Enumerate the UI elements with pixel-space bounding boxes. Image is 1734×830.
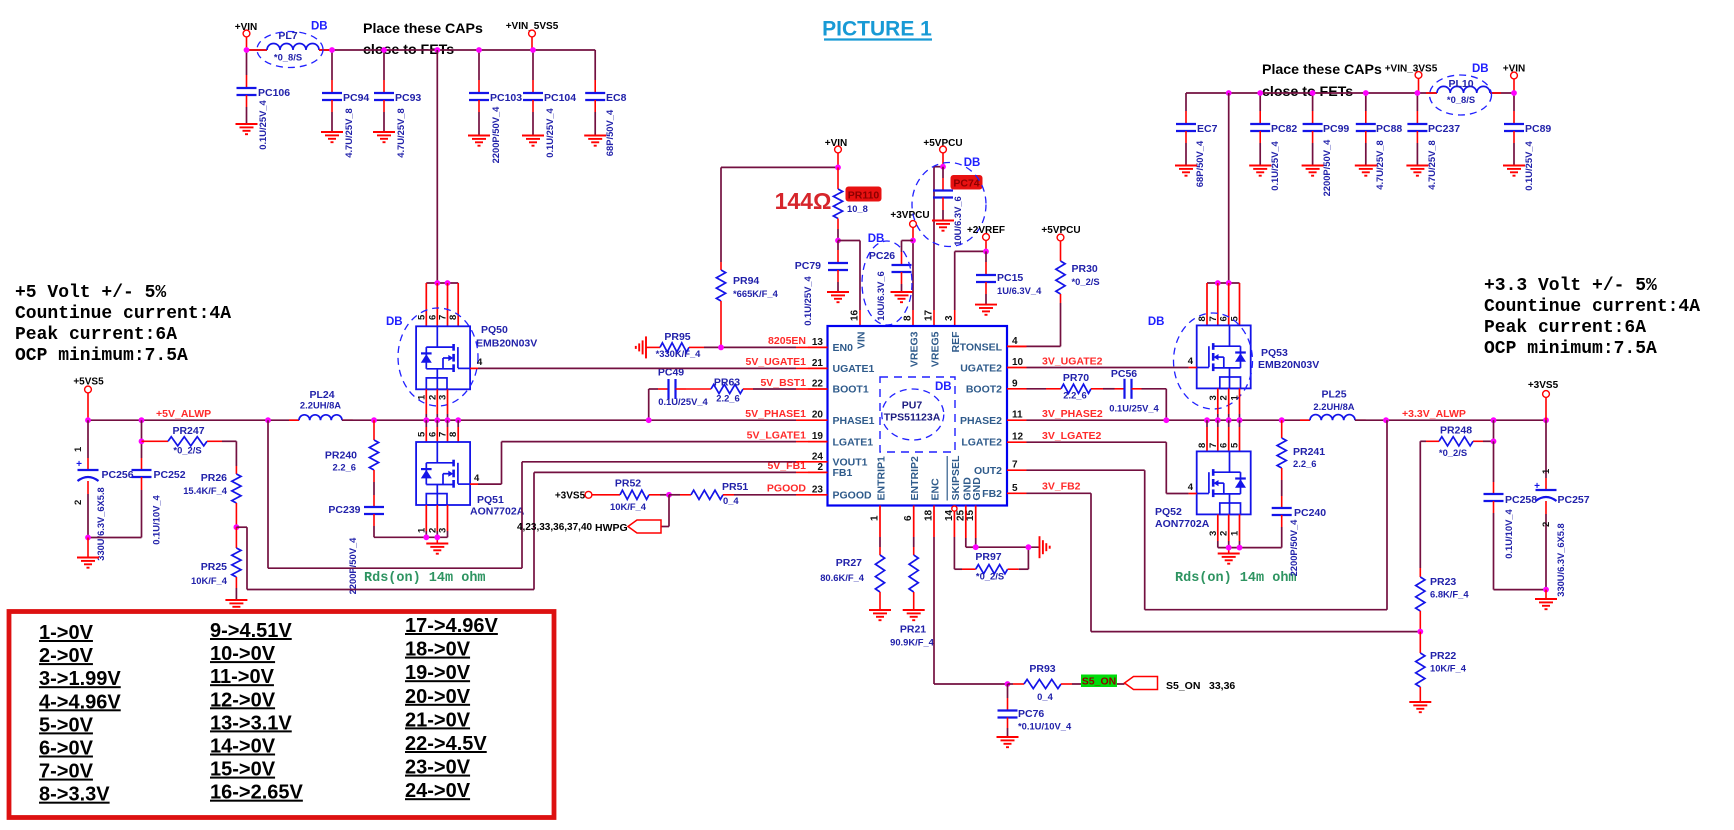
title PICTURE 1 bbox=[822, 18, 932, 41]
power terminal +5VS5 bbox=[73, 377, 104, 421]
junctions +5V_ALWP / phase rail bbox=[85, 417, 652, 423]
svg-text:11->0V: 11->0V bbox=[210, 666, 275, 688]
svg-text:BOOT1: BOOT1 bbox=[833, 384, 869, 396]
svg-text:19->0V: 19->0V bbox=[405, 662, 471, 684]
svg-text:PR110: PR110 bbox=[848, 189, 880, 201]
svg-text:4.7U/25V_8: 4.7U/25V_8 bbox=[343, 108, 354, 158]
svg-text:PL10: PL10 bbox=[1448, 78, 1473, 90]
junctions on +VIN bus (top-left) bbox=[244, 47, 536, 53]
svg-text:2.2_6: 2.2_6 bbox=[333, 462, 356, 473]
capacitor PC240 bbox=[1272, 496, 1327, 576]
DB marker PQ50 bbox=[386, 308, 478, 406]
svg-text:S5_ON: S5_ON bbox=[1166, 680, 1200, 692]
svg-text:20: 20 bbox=[812, 410, 824, 421]
svg-text:3: 3 bbox=[1208, 531, 1219, 536]
transistor PQ51 top pins 5,6,7,8 bbox=[416, 420, 459, 442]
pin 8 VREG3 (PU7 top) bbox=[903, 315, 921, 367]
resistor PR30 bbox=[1056, 248, 1100, 303]
resistor PR22 bbox=[1416, 632, 1467, 702]
svg-text:PL25: PL25 bbox=[1321, 389, 1346, 401]
ground (PC237) bbox=[1406, 166, 1428, 176]
svg-text:LGATE1: LGATE1 bbox=[833, 437, 874, 449]
svg-text:PHASE2: PHASE2 bbox=[960, 415, 1002, 427]
svg-text:2: 2 bbox=[1219, 395, 1230, 400]
svg-text:2->0V: 2->0V bbox=[39, 645, 94, 667]
svg-text:2: 2 bbox=[817, 462, 823, 473]
ground (PC103) bbox=[468, 136, 490, 146]
svg-text:PR51: PR51 bbox=[722, 481, 748, 493]
svg-text:1: 1 bbox=[416, 527, 427, 533]
svg-text:FB2: FB2 bbox=[982, 488, 1002, 500]
svg-text:8: 8 bbox=[1197, 443, 1208, 448]
svg-text:S5_ON: S5_ON bbox=[1082, 676, 1116, 688]
pin 13 EN0 (PU7 left) bbox=[808, 337, 853, 354]
wire OUT2 sense bbox=[1027, 420, 1388, 610]
capacitor EC8 bbox=[585, 50, 626, 156]
power terminal +5VPCU (TONSEL) bbox=[1041, 225, 1080, 248]
wire FB1 sense bbox=[236, 472, 808, 589]
pin 7 OUT2 (PU7 right) bbox=[974, 460, 1027, 477]
junction FB1 divider bbox=[234, 524, 240, 530]
transistor PQ51 bottom pins 1,2,3 bbox=[416, 505, 448, 537]
svg-text:1: 1 bbox=[1230, 395, 1241, 401]
voltage table red frame bbox=[9, 612, 554, 818]
svg-text:144Ω: 144Ω bbox=[775, 188, 832, 214]
note: +5 Volt spec block bbox=[15, 283, 231, 366]
svg-text:24: 24 bbox=[812, 451, 824, 462]
inductor PL24 bbox=[289, 389, 353, 420]
svg-text:BOOT2: BOOT2 bbox=[966, 384, 1002, 396]
svg-text:3: 3 bbox=[944, 315, 955, 321]
svg-text:*330K/F_4: *330K/F_4 bbox=[656, 348, 702, 359]
svg-text:0.1U/25V_4: 0.1U/25V_4 bbox=[802, 275, 813, 325]
svg-text:10: 10 bbox=[1012, 357, 1024, 368]
svg-text:PR25: PR25 bbox=[201, 561, 227, 573]
svg-text:EC8: EC8 bbox=[606, 92, 627, 104]
net 3V_UGATE2 bbox=[1042, 356, 1103, 368]
svg-text:0.1U/25V_4: 0.1U/25V_4 bbox=[658, 396, 708, 407]
pin 4 TONSEL (PU7 right) bbox=[960, 336, 1027, 354]
svg-text:5: 5 bbox=[416, 431, 427, 437]
junction EN0/PR94 bbox=[718, 345, 724, 351]
inductor PL7 bbox=[249, 30, 331, 63]
net PGOOD bbox=[767, 483, 807, 495]
svg-text:HWPG: HWPG bbox=[595, 522, 628, 534]
transistor PQ50 bottom pins 1,2,3 bbox=[416, 389, 448, 420]
ground (PC106) bbox=[236, 124, 258, 134]
power terminal +3VS5 (PGOOD pullup) bbox=[555, 491, 600, 502]
resistor PR247 bbox=[142, 425, 237, 456]
svg-text:10K/F_4: 10K/F_4 bbox=[191, 575, 228, 586]
resistor PR93 bbox=[1008, 663, 1125, 702]
resistor PR94 bbox=[716, 262, 778, 347]
power terminal +2VREF bbox=[967, 225, 1005, 251]
svg-text:PC106: PC106 bbox=[258, 87, 290, 99]
power terminal +VIN (top-right) bbox=[1503, 64, 1526, 94]
resistor PR241 bbox=[1277, 420, 1325, 496]
svg-text:3V_UGATE2: 3V_UGATE2 bbox=[1042, 356, 1103, 368]
svg-text:PC258: PC258 bbox=[1505, 494, 1537, 506]
svg-text:PC89: PC89 bbox=[1525, 123, 1551, 135]
svg-text:10_8: 10_8 bbox=[847, 203, 868, 214]
ground (EC8) bbox=[584, 136, 606, 146]
svg-text:*0.1U/10V_4: *0.1U/10V_4 bbox=[1018, 721, 1072, 732]
junction +2VREF node bbox=[983, 249, 989, 255]
wire +VIN bus (top-left) bbox=[247, 49, 596, 51]
capacitor PC258 bbox=[1484, 441, 1547, 589]
svg-text:PC15: PC15 bbox=[997, 272, 1023, 284]
ground (PC89) bbox=[1503, 166, 1525, 176]
svg-text:VIN: VIN bbox=[856, 332, 868, 350]
ground (PC256) bbox=[77, 538, 99, 568]
capacitor PC26 bbox=[869, 241, 913, 321]
resistor PR97 bbox=[962, 547, 1028, 581]
svg-text:*0_2/S: *0_2/S bbox=[1072, 276, 1100, 287]
note Rds(on) right bbox=[1175, 571, 1297, 586]
svg-text:TPS51123A: TPS51123A bbox=[884, 412, 941, 424]
ground (PC15) bbox=[975, 305, 997, 315]
svg-text:SKIPSEL: SKIPSEL bbox=[950, 455, 962, 501]
transistor PQ52 top pins 8,7,6,5 bbox=[1197, 420, 1241, 451]
svg-text:5: 5 bbox=[416, 314, 427, 320]
svg-text:3: 3 bbox=[1208, 395, 1219, 400]
svg-text:330U/6.3V_6X5.8: 330U/6.3V_6X5.8 bbox=[96, 487, 106, 560]
capacitor PC93 bbox=[374, 50, 421, 158]
junction PR248 right bbox=[1491, 438, 1497, 444]
capacitor PC76 bbox=[998, 684, 1072, 737]
svg-text:PC240: PC240 bbox=[1294, 507, 1326, 519]
svg-text:PR240: PR240 bbox=[325, 450, 357, 462]
svg-text:2.2_6: 2.2_6 bbox=[1293, 458, 1316, 469]
value 144-ohm callout bbox=[775, 188, 832, 214]
junctions on +VIN bus (top-right) bbox=[1226, 90, 1517, 96]
svg-text:0.1U/25V_4: 0.1U/25V_4 bbox=[1109, 403, 1159, 414]
svg-text:8: 8 bbox=[448, 315, 459, 320]
svg-text:*0_2/S: *0_2/S bbox=[976, 571, 1004, 582]
pin 23 PGOOD (PU7 left) bbox=[808, 484, 872, 501]
svg-text:DB: DB bbox=[964, 157, 981, 169]
note: Place these CAPs close to FETs (right) bbox=[1262, 62, 1382, 100]
svg-text:2200P/50V_4: 2200P/50V_4 bbox=[490, 106, 501, 164]
svg-text:7: 7 bbox=[1208, 316, 1219, 321]
note: Place these CAPs close to FETs (left) bbox=[363, 21, 483, 58]
ground (PC99) bbox=[1302, 166, 1324, 176]
resistor PR63 bbox=[686, 377, 808, 404]
svg-text:15.4K/F_4: 15.4K/F_4 bbox=[183, 485, 228, 496]
svg-text:DB: DB bbox=[1472, 63, 1489, 75]
svg-text:OCP minimum:7.5A: OCP minimum:7.5A bbox=[1484, 339, 1657, 359]
svg-text:4: 4 bbox=[474, 473, 480, 484]
svg-text:2200P/50V_4: 2200P/50V_4 bbox=[1288, 519, 1299, 577]
voltage table column 2 bbox=[210, 620, 304, 804]
power terminal +VIN_3VS5 bbox=[1385, 64, 1438, 94]
svg-text:PR21: PR21 bbox=[900, 624, 926, 636]
svg-text:2.2UH/8A: 2.2UH/8A bbox=[1313, 401, 1354, 412]
svg-text:PQ51: PQ51 bbox=[477, 494, 504, 506]
junctions +3.3V_ALWP rail bbox=[1383, 417, 1549, 423]
svg-text:PR241: PR241 bbox=[1293, 446, 1325, 458]
capacitor PC99 bbox=[1303, 93, 1350, 196]
svg-text:18: 18 bbox=[924, 509, 935, 521]
svg-text:4->4.96V: 4->4.96V bbox=[39, 691, 121, 713]
wire 3V phase node bbox=[1027, 419, 1311, 421]
power terminal +VIN (center) bbox=[825, 138, 848, 167]
net 3V_FB2 bbox=[1042, 481, 1081, 493]
wire 5V phase node bbox=[342, 419, 808, 421]
svg-text:AON7702A: AON7702A bbox=[470, 506, 525, 518]
DB marker PQ53 bbox=[1148, 313, 1253, 409]
capacitor PC256 (bulk) bbox=[73, 420, 134, 561]
capacitor PC15 bbox=[976, 251, 1042, 304]
ground (PC93) bbox=[373, 132, 395, 142]
ground (PR21) bbox=[903, 610, 925, 620]
capacitor PC82 bbox=[1250, 93, 1297, 191]
svg-text:FB1: FB1 bbox=[833, 467, 853, 479]
transistor PQ52 bottom pins 3,2,1 bbox=[1208, 514, 1241, 547]
wire HWPG stub bbox=[661, 495, 669, 527]
svg-text:15->0V: 15->0V bbox=[210, 759, 276, 781]
transistor Q1 PQ50 (EMB20N03V) bbox=[416, 324, 537, 389]
svg-text:19: 19 bbox=[812, 431, 824, 442]
svg-text:5V_UGATE1: 5V_UGATE1 bbox=[746, 356, 807, 368]
ground (PR25) bbox=[225, 600, 247, 610]
svg-text:+3.3V_ALWP: +3.3V_ALWP bbox=[1402, 408, 1466, 420]
ground (PR22) bbox=[1409, 702, 1431, 712]
svg-text:11: 11 bbox=[1012, 410, 1023, 421]
svg-text:68P/50V_4: 68P/50V_4 bbox=[604, 109, 615, 156]
svg-text:OUT2: OUT2 bbox=[974, 465, 1002, 477]
resistor PR70 bbox=[1027, 372, 1115, 401]
svg-text:90.9K/F_4: 90.9K/F_4 bbox=[890, 637, 935, 648]
svg-text:1: 1 bbox=[1230, 530, 1241, 536]
net 3V_PHASE2 bbox=[1042, 408, 1103, 420]
svg-text:PR97: PR97 bbox=[975, 551, 1001, 563]
wire +VIN node to PR94 bbox=[721, 167, 838, 262]
capacitor PC94 bbox=[322, 50, 369, 158]
svg-text:PHASE1: PHASE1 bbox=[833, 415, 875, 427]
wire TONSEL net bbox=[1007, 303, 1061, 346]
net flag S5_ON (green) bbox=[1081, 675, 1117, 688]
pin 9 BOOT2 (PU7 right) bbox=[966, 378, 1027, 395]
ground (PR27) bbox=[869, 610, 891, 620]
svg-text:3->1.99V: 3->1.99V bbox=[39, 668, 121, 690]
junction PGOOD/HWPG bbox=[666, 492, 672, 498]
capacitor PC79 bbox=[795, 241, 848, 326]
capacitor PC49 bbox=[649, 367, 709, 421]
svg-text:3: 3 bbox=[438, 528, 449, 533]
svg-text:12->0V: 12->0V bbox=[210, 689, 276, 711]
pin 24 VOUT1 (PU7 left) bbox=[808, 451, 868, 468]
off-page connector S5_ON bbox=[1125, 677, 1236, 693]
svg-text:PC237: PC237 bbox=[1428, 123, 1460, 135]
junctions GND net bbox=[973, 544, 1032, 550]
junctions PQ50 mini-bus bbox=[434, 280, 450, 286]
wire VIN feed to PQ50 bbox=[436, 50, 438, 283]
resistor PR52 bbox=[600, 478, 669, 513]
off-page connector HWPG bbox=[517, 520, 661, 534]
ground (PQ52 source) bbox=[1218, 554, 1240, 564]
svg-text:23: 23 bbox=[812, 484, 824, 495]
pin 14 SKIPSEL bubble and wire bbox=[952, 506, 962, 569]
svg-text:10U/6.3V_6: 10U/6.3V_6 bbox=[875, 271, 886, 321]
svg-text:PR63: PR63 bbox=[714, 377, 740, 389]
power terminal +VIN_5VS5 bbox=[506, 21, 559, 50]
wire +3.3V_ALWP rail bbox=[1355, 419, 1546, 421]
svg-text:*0_2/S: *0_2/S bbox=[173, 445, 201, 456]
svg-text:PC74: PC74 bbox=[953, 177, 979, 189]
wire PQ53 drain mini-bus bbox=[1207, 282, 1240, 284]
pin 15 GND (PU7 bottom) bbox=[965, 477, 983, 521]
pin 2 FB1 (PU7 left) bbox=[808, 462, 852, 479]
wire PQ52 source to ground bbox=[1218, 548, 1282, 554]
svg-text:UGATE1: UGATE1 bbox=[833, 363, 875, 375]
junction PC256 bottom bbox=[85, 535, 91, 541]
svg-text:7: 7 bbox=[438, 432, 449, 437]
svg-text:3V_FB2: 3V_FB2 bbox=[1042, 481, 1081, 493]
net 5V_UGATE1 bbox=[746, 356, 807, 368]
svg-text:VREG5: VREG5 bbox=[930, 331, 942, 367]
svg-text:4: 4 bbox=[1012, 336, 1018, 347]
svg-text:OCP minimum:7.5A: OCP minimum:7.5A bbox=[15, 346, 188, 366]
svg-text:Countinue current:4A: Countinue current:4A bbox=[15, 304, 231, 324]
junctions PQ52 source bbox=[1226, 545, 1243, 551]
svg-text:PC93: PC93 bbox=[395, 92, 421, 104]
svg-text:*0_8/S: *0_8/S bbox=[274, 52, 302, 63]
svg-text:PC56: PC56 bbox=[1111, 368, 1137, 380]
svg-text:EMB20N03V: EMB20N03V bbox=[1258, 359, 1319, 371]
capacitor PC239 bbox=[328, 495, 384, 594]
ground (PC26) bbox=[891, 292, 913, 302]
svg-text:5: 5 bbox=[1230, 442, 1241, 448]
svg-text:8: 8 bbox=[448, 432, 459, 437]
svg-text:13->3.1V: 13->3.1V bbox=[210, 712, 292, 734]
svg-text:5V_PHASE1: 5V_PHASE1 bbox=[745, 408, 806, 420]
svg-text:PR27: PR27 bbox=[836, 557, 862, 569]
svg-text:2: 2 bbox=[73, 500, 84, 505]
resistor PR25 bbox=[191, 527, 241, 600]
svg-text:80.6K/F_4: 80.6K/F_4 bbox=[820, 572, 865, 583]
wire VREG3 pin8 feed bbox=[912, 241, 914, 327]
junctions PQ53 mini-bus bbox=[1215, 280, 1232, 286]
wire UGATE1 (PQ50 gate) bbox=[470, 357, 808, 368]
svg-text:PQ53: PQ53 bbox=[1261, 347, 1288, 359]
svg-text:PC79: PC79 bbox=[795, 260, 821, 272]
svg-text:TONSEL: TONSEL bbox=[960, 342, 1003, 354]
power terminal +3VS5 bbox=[1528, 380, 1559, 420]
pin 3 REF (PU7 top) bbox=[944, 315, 962, 353]
wire +5V_ALWP rail bbox=[88, 419, 299, 421]
ground (PC82) bbox=[1249, 166, 1271, 176]
capacitor PC237 bbox=[1407, 93, 1460, 190]
svg-text:PC99: PC99 bbox=[1323, 123, 1349, 135]
svg-text:2.2UH/8A: 2.2UH/8A bbox=[300, 400, 341, 411]
svg-text:PR30: PR30 bbox=[1072, 263, 1098, 275]
svg-text:ENTRIP1: ENTRIP1 bbox=[876, 456, 888, 501]
transistor Q4 PQ52 (AON7702A) bbox=[1155, 451, 1251, 530]
svg-text:+VIN_3VS5: +VIN_3VS5 bbox=[1385, 64, 1438, 75]
svg-text:5: 5 bbox=[1012, 483, 1018, 494]
svg-text:1: 1 bbox=[870, 515, 881, 521]
ground (PC94) bbox=[321, 132, 343, 142]
capacitor PC56 bbox=[1109, 368, 1166, 420]
svg-text:3V_LGATE2: 3V_LGATE2 bbox=[1042, 430, 1101, 442]
wire UGATE2 (PQ53 gate) bbox=[1027, 356, 1197, 368]
svg-text:EMB20N03V: EMB20N03V bbox=[476, 338, 537, 350]
svg-text:8205EN: 8205EN bbox=[768, 335, 806, 347]
svg-text:8: 8 bbox=[903, 315, 914, 321]
svg-text:AON7702A: AON7702A bbox=[1155, 518, 1210, 530]
inductor PL25 bbox=[1300, 389, 1366, 421]
svg-text:7: 7 bbox=[438, 315, 449, 320]
svg-text:2200P/50V_4: 2200P/50V_4 bbox=[1321, 139, 1332, 197]
transistor Q2 PQ51 (AON7702A) bbox=[416, 442, 525, 518]
svg-text:DB: DB bbox=[386, 316, 403, 328]
wire GND pins 25/15 bbox=[966, 506, 1040, 548]
svg-text:2200P/50V_4: 2200P/50V_4 bbox=[347, 537, 358, 595]
DB marker PL7 bbox=[257, 21, 328, 68]
svg-text:+3VS5: +3VS5 bbox=[555, 491, 586, 502]
svg-text:Peak current:6A: Peak current:6A bbox=[1484, 318, 1646, 338]
pin 17 VREG5 (PU7 top) bbox=[924, 309, 942, 367]
wire LGATE2 (PQ52 gate) bbox=[1027, 442, 1197, 493]
svg-text:22: 22 bbox=[812, 379, 824, 390]
pin 25 GND (PU7 bottom) bbox=[955, 477, 973, 521]
svg-text:24->0V: 24->0V bbox=[405, 780, 471, 802]
svg-text:330U/6.3V_6X5.8: 330U/6.3V_6X5.8 bbox=[1556, 523, 1566, 596]
transistor Q3 PQ53 (EMB20N03V) bbox=[1197, 325, 1320, 388]
wire PQ50 drain mini-bus bbox=[426, 282, 458, 284]
svg-text:1: 1 bbox=[1541, 468, 1552, 474]
svg-text:21->0V: 21->0V bbox=[405, 709, 471, 731]
svg-text:close to FETs: close to FETs bbox=[1262, 84, 1353, 100]
svg-text:13: 13 bbox=[812, 337, 824, 348]
svg-text:1->0V: 1->0V bbox=[39, 622, 94, 644]
wire VOUT1 sense bbox=[268, 420, 808, 568]
net 5V_LGATE1 bbox=[747, 430, 806, 442]
svg-text:+3VPCU: +3VPCU bbox=[890, 210, 929, 221]
svg-text:+3.3 Volt +/- 5%: +3.3 Volt +/- 5% bbox=[1484, 276, 1657, 296]
capacitor PC106 bbox=[237, 50, 291, 150]
DB marker PC26 bbox=[862, 233, 912, 325]
svg-text:22->4.5V: 22->4.5V bbox=[405, 733, 487, 755]
junction +3VPCU node bbox=[910, 238, 916, 244]
svg-text:PC256: PC256 bbox=[102, 469, 134, 481]
svg-text:Place these CAPs: Place these CAPs bbox=[363, 21, 483, 37]
svg-text:0.1U/25V_4: 0.1U/25V_4 bbox=[257, 99, 268, 149]
capacitor PC89 bbox=[1504, 93, 1551, 191]
svg-text:Rds(on) 14m ohm: Rds(on) 14m ohm bbox=[1175, 571, 1297, 586]
ground (PC88) bbox=[1355, 166, 1377, 176]
pin 6 ENTRIP2 (PU7 bottom) bbox=[903, 456, 921, 521]
svg-text:0.1U/10V_4: 0.1U/10V_4 bbox=[151, 494, 162, 544]
resistor PR26 bbox=[183, 441, 241, 527]
svg-text:33,36: 33,36 bbox=[1209, 680, 1235, 692]
svg-text:PR95: PR95 bbox=[664, 331, 690, 343]
svg-text:PR26: PR26 bbox=[201, 472, 227, 484]
svg-text:1: 1 bbox=[416, 394, 427, 400]
svg-text:+5V_ALWP: +5V_ALWP bbox=[156, 408, 211, 420]
wire VIN pin16 feed bbox=[838, 241, 860, 327]
wire EN0 to pin 13 bbox=[704, 346, 808, 348]
svg-text:7: 7 bbox=[1208, 443, 1219, 448]
net 8205EN bbox=[768, 335, 806, 347]
svg-text:4: 4 bbox=[477, 357, 483, 368]
wire LGATE1 (PQ51 gate) bbox=[470, 442, 808, 485]
svg-text:20->0V: 20->0V bbox=[405, 686, 471, 708]
svg-text:4: 4 bbox=[1188, 356, 1194, 367]
svg-text:17: 17 bbox=[924, 309, 935, 321]
svg-text:68P/50V_4: 68P/50V_4 bbox=[1194, 140, 1205, 187]
